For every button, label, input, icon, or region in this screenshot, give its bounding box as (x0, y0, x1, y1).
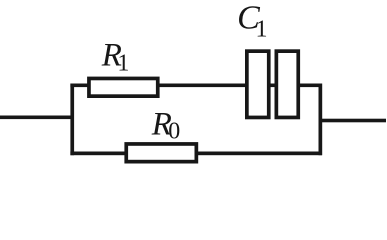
wire R1 to C1 (157, 84, 247, 88)
wire stub between C1 plates (267, 84, 277, 88)
capacitor C1 plate 1 (247, 51, 269, 117)
wire bottom branch left (70, 152, 126, 156)
svg-text:0: 0 (168, 119, 180, 145)
resistor R1 (89, 78, 158, 96)
svg-text:1: 1 (117, 51, 129, 77)
wire left input (0, 116, 74, 120)
capacitor C1 plate 2 (276, 51, 298, 117)
wire bottom branch right (196, 152, 322, 156)
resistor R0 (126, 144, 196, 162)
wire top branch stub to R1 (70, 84, 89, 88)
wire right output (320, 119, 386, 123)
svg-text:1: 1 (256, 17, 268, 43)
wire left vertical junction (70, 84, 74, 156)
wire C1 to right vertical (298, 84, 322, 88)
wire right vertical junction (319, 84, 323, 156)
